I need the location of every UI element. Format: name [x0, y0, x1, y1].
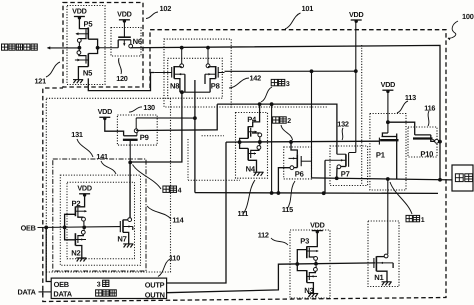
P-gate bus y=142.1 to P1 gate	[226, 140, 379, 143]
P10 gate bubble to pad column	[433, 139, 435, 140]
column x=194.9 from pair down to gate bus	[194, 80, 196, 193]
ground of N1	[382, 282, 385, 286]
P9 gate lead down - node4 column	[129, 140, 131, 218]
svg-text:141: 141	[96, 152, 108, 161]
sources common node and junction	[180, 90, 184, 94]
label 节点3 with leader	[271, 79, 277, 85]
column x=311.5 down to P6 gate and pad wire	[311, 71, 313, 178]
wire with N8/P8 drain taps on top wire	[180, 46, 184, 50]
nmos N3	[309, 271, 315, 272]
svg-text:110: 110	[169, 254, 180, 263]
svg-text:VDD: VDD	[349, 10, 363, 19]
svg-text:P8: P8	[211, 82, 220, 91]
svg-text:132: 132	[337, 120, 349, 129]
dotted box around N1	[368, 221, 399, 287]
pmos P7	[345, 154, 347, 166]
gate drive bus y=192.6	[195, 192, 438, 195]
svg-text:P10: P10	[420, 150, 433, 159]
ground of N7	[124, 244, 127, 248]
svg-text:VDD: VDD	[310, 220, 324, 229]
svg-text:P2: P2	[72, 199, 81, 208]
drain line P2/N2	[65, 214, 76, 240]
nmos N8	[181, 48, 183, 64]
OUTN wire to N1 gate	[167, 263, 376, 293]
column x=271.6 node3 to bus	[271, 104, 273, 193]
3-state controller box	[51, 278, 166, 298]
svg-text:DATA: DATA	[53, 290, 72, 299]
node3 wire	[217, 104, 337, 154]
box 131 dash-dot outer	[53, 159, 146, 271]
svg-text:OUTN: OUTN	[145, 290, 165, 299]
nmos N2	[78, 234, 83, 235]
svg-text:N6: N6	[133, 37, 142, 46]
pmos P6	[291, 142, 297, 154]
svg-text:101: 101	[302, 4, 314, 13]
wire to internal circuit with arrow	[48, 47, 80, 49]
wire node to N6 source	[98, 47, 119, 49]
svg-text:116: 116	[424, 103, 435, 112]
nmos N5	[79, 54, 86, 55]
box 114 dotted (P2/N2/N7)	[67, 182, 135, 259]
svg-text:1: 1	[421, 217, 425, 224]
svg-text:P7: P7	[341, 170, 350, 179]
box 132 dotted (P7)	[330, 146, 368, 186]
svg-text:102: 102	[160, 4, 172, 13]
big dotted box around level shifter left part	[46, 98, 170, 272]
svg-text:130: 130	[143, 103, 155, 112]
pmos P3	[307, 232, 318, 247]
svg-text:N2: N2	[71, 249, 80, 258]
ground of N5	[73, 80, 76, 84]
svg-text:P3: P3	[300, 237, 309, 246]
ground of N3	[308, 294, 311, 298]
box 121 dotted (P5/N5 inverter)	[67, 6, 105, 85]
block 102 input buffer dashed box	[63, 3, 143, 88]
svg-text:3: 3	[286, 81, 290, 88]
pad wire node1	[312, 178, 453, 180]
box 111 dotted (P4/N4)	[236, 113, 268, 179]
box 116 dotted (P10)	[408, 127, 437, 157]
drain line P4/N4 to bus	[240, 138, 249, 148]
ground of N4	[254, 172, 257, 176]
焊盘 pad label	[455, 174, 463, 182]
wire from P8 gate right to VDD column	[225, 70, 356, 72]
svg-text:115: 115	[282, 205, 293, 214]
pad box 焊盘	[452, 165, 473, 191]
svg-text:P5: P5	[84, 20, 94, 29]
P9 drain wire to x=194.9 junction	[136, 117, 195, 119]
svg-text:120: 120	[116, 74, 128, 83]
nmos N4	[251, 149, 259, 150]
svg-text:N7: N7	[117, 235, 126, 244]
svg-text:P4: P4	[247, 115, 257, 124]
N8 drain column down to node4 link	[130, 92, 182, 162]
dotted vertical edge x=361.7	[361, 45, 363, 185]
box 120 dotted (N6)	[111, 28, 141, 57]
OEB wire	[38, 226, 121, 229]
svg-text:OEB: OEB	[21, 223, 36, 232]
label 节点1 with leader	[406, 215, 412, 221]
pmos P9 horizontal	[105, 118, 124, 135]
dotted box around N8/P8 outer	[164, 39, 231, 107]
node2 junction and label	[273, 117, 279, 123]
dotted edge segment right of N8/P8 box	[231, 106, 327, 108]
svg-text:VDD: VDD	[77, 184, 91, 193]
nmos N6 horizontal	[123, 21, 125, 37]
svg-text:VDD: VDD	[381, 80, 395, 89]
svg-text:121: 121	[35, 76, 47, 85]
P1 drain down to pad wire	[396, 137, 398, 180]
gate node line with bubbles	[78, 42, 80, 46]
svg-text:2: 2	[287, 118, 291, 125]
pmos P4	[248, 104, 259, 126]
dotted edge fragments left of P4 box	[187, 139, 189, 180]
drain line of P5/N5 to output	[88, 39, 97, 53]
svg-text:112: 112	[258, 230, 269, 239]
svg-text:P6: P6	[295, 169, 304, 178]
label 节点4 with leader	[163, 186, 169, 192]
svg-text:VDD: VDD	[72, 6, 86, 15]
outer dashed box 100/101 chip outline	[43, 30, 446, 302]
wire from N5 region to N8 gate	[88, 73, 154, 91]
svg-text:N5: N5	[83, 69, 93, 78]
OEB branch down to controller	[46, 227, 51, 281]
svg-text:142: 142	[250, 73, 262, 82]
svg-text:100: 100	[462, 12, 474, 21]
drain line P3/N3	[297, 250, 307, 271]
wire from P9 drain to node3 riser	[136, 104, 217, 130]
svg-text:DATA: DATA	[18, 287, 37, 296]
svg-text:VDD: VDD	[98, 107, 112, 116]
ground of N2	[77, 258, 80, 262]
svg-text:N1: N1	[374, 273, 384, 282]
VDD column down to P7 gate	[355, 21, 357, 153]
box 113 dotted (P1)	[370, 114, 406, 191]
long wire from N6 to right side and down to pad column	[131, 45, 440, 179]
svg-text:N8: N8	[170, 82, 179, 91]
nmos N7	[119, 221, 121, 232]
box 142 dotted (N8/P8)	[168, 58, 223, 98]
svg-text:114: 114	[172, 216, 184, 225]
box 115 dotted (P6)	[284, 147, 312, 179]
pmos P10 horizontal	[415, 134, 431, 136]
pmos P1 horizontal	[382, 133, 388, 137]
pmos P5	[79, 18, 88, 29]
OUTP wire from controller up to P-gate bus	[167, 142, 226, 283]
svg-text:131: 131	[71, 130, 83, 139]
label 到内部电路 (to internal circuit)	[2, 44, 8, 50]
gate node P2/N2	[83, 221, 85, 225]
box 130 dotted (P9)	[117, 115, 157, 145]
svg-text:VDD: VDD	[117, 10, 131, 19]
nmos N1	[373, 258, 375, 268]
VDD column with branch	[387, 91, 389, 133]
svg-text:OEB: OEB	[54, 280, 69, 289]
box 112 dotted (P3/N3)	[290, 230, 330, 298]
pmos P8	[207, 48, 209, 64]
svg-text:P1: P1	[376, 151, 386, 160]
svg-text:4: 4	[178, 187, 182, 194]
box 141 dotted middle	[60, 175, 140, 265]
gate node bubbles P4/N4	[259, 137, 261, 140]
svg-text:3: 3	[97, 282, 101, 289]
gate node P3/N3	[315, 260, 317, 262]
svg-text:113: 113	[405, 93, 416, 102]
svg-text:OUTP: OUTP	[145, 280, 165, 289]
svg-text:P9: P9	[140, 133, 149, 142]
pmos P2	[75, 195, 84, 207]
